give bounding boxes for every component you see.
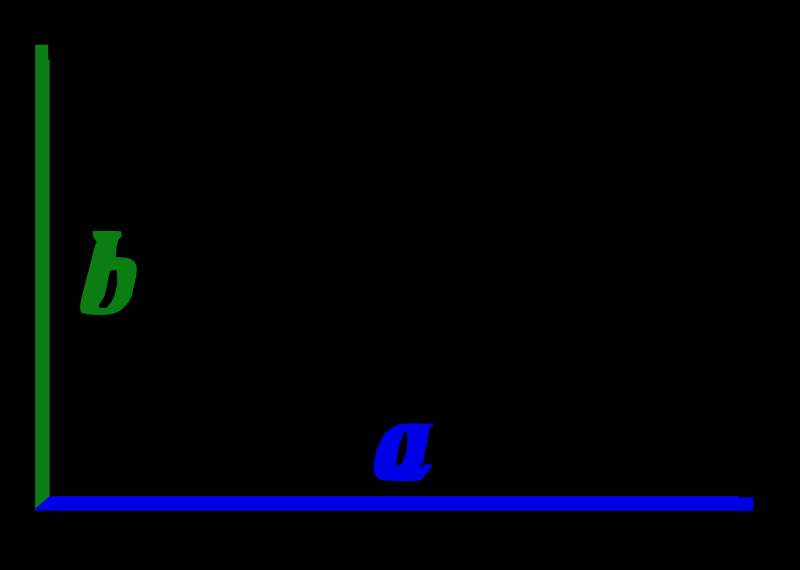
label b (green): [80, 231, 137, 315]
side a (blue horizontal line): [35, 496, 753, 511]
side b (green vertical line): [35, 45, 50, 510]
label a (blue): [374, 423, 434, 481]
